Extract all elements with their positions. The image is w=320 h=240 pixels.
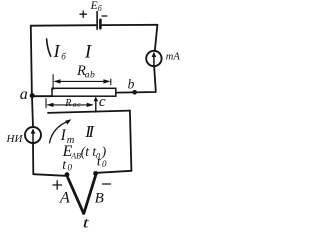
thermocouple terminal A junction dot: [65, 172, 70, 177]
label t0 cold-junction left: [62, 158, 72, 173]
polarity plus at electrode A: [53, 181, 62, 189]
thermocouple electrode A left leg: [67, 176, 84, 213]
svg-text:0: 0: [68, 163, 73, 173]
svg-text:ab: ab: [85, 70, 95, 80]
Rac dimension left tick: [45, 99, 47, 108]
label Rab: [76, 63, 95, 81]
wire loop II right side: [130, 111, 132, 171]
label Iт: [60, 127, 75, 146]
slide-wire rheostat Rab body: [52, 88, 116, 96]
label t0 cold-junction right: [97, 154, 107, 169]
slider contact c tick with up arrowhead: [94, 97, 99, 112]
battery polarity minus: [102, 15, 107, 17]
label Rac: [64, 98, 81, 109]
battery Eб long plus plate: [96, 12, 98, 30]
wire left side upper (top-left corner to node a): [31, 26, 32, 97]
label Eб: [90, 0, 103, 13]
thermocouple terminal B junction dot: [93, 171, 98, 176]
svg-text:b: b: [128, 76, 135, 91]
svg-text:E: E: [90, 0, 98, 12]
null indicator НИ body: [25, 127, 41, 143]
node a junction dot: [30, 93, 35, 98]
Rab dimension right tick: [110, 79, 112, 85]
svg-text:НИ: НИ: [6, 133, 24, 145]
current direction stroke Iб: [47, 39, 51, 56]
svg-text:mA: mA: [166, 52, 181, 63]
battery polarity plus: [80, 11, 86, 17]
battery Eб short minus plate: [99, 20, 102, 28]
svg-text:II: II: [84, 122, 95, 141]
wire loop II bottom right (corner to thermocouple B terminal): [97, 171, 131, 173]
wire bottom left (corner to thermocouple A terminal): [33, 174, 65, 176]
wire right side upper (top-right corner down to milliammeter): [155, 25, 158, 51]
current direction arrow Iт (curved with arrowhead): [50, 119, 72, 143]
svg-text:R: R: [64, 98, 71, 109]
svg-text:б: б: [98, 4, 103, 13]
wire right side lower (milliammeter to corner above node b): [154, 66, 156, 89]
wire left side lower (НИ down to bottom-left corner): [32, 143, 34, 174]
svg-text:c: c: [99, 94, 106, 110]
label Iб: [53, 41, 67, 61]
svg-text:(t t: (t t: [81, 144, 98, 159]
svg-text:a: a: [20, 86, 28, 103]
node b junction dot: [132, 90, 137, 95]
svg-text:б: б: [61, 51, 66, 61]
svg-text:I: I: [53, 41, 61, 61]
svg-text:): ): [101, 144, 107, 159]
svg-text:I: I: [60, 127, 67, 144]
wire node a to slide-wire left end: [32, 95, 53, 97]
svg-text:I: I: [84, 41, 93, 62]
null indicator НИ needle arrow: [31, 128, 36, 141]
wire top side right segment (battery - plate to top-right corner): [102, 24, 158, 26]
wire top side left segment (top-left corner to battery + plate): [31, 24, 96, 27]
wire loop II top (left overshoot end to top-right corner of loop II): [48, 111, 130, 113]
polarity minus at electrode B: [103, 183, 111, 185]
Rab dimension left tick: [52, 75, 54, 90]
thermocouple electrode B right leg: [84, 175, 96, 213]
svg-text:A: A: [59, 190, 70, 207]
label EАВ(t t0) thermo-EMF: [62, 143, 107, 160]
wire left side middle (node a down to НИ): [32, 96, 33, 127]
milliammeter mA body: [146, 51, 161, 66]
svg-text:t: t: [83, 216, 90, 228]
milliammeter mA needle arrow: [152, 52, 157, 65]
svg-text:АВ: АВ: [70, 151, 81, 160]
svg-text:ac: ac: [73, 100, 81, 109]
svg-text:0: 0: [102, 159, 107, 169]
Rab dimension line with outward arrowheads: [54, 79, 111, 83]
wire node b horizontal (right corner to slide-wire right end): [116, 90, 156, 93]
svg-text:B: B: [95, 191, 104, 207]
Rac dimension line with outward arrowheads: [47, 103, 94, 107]
